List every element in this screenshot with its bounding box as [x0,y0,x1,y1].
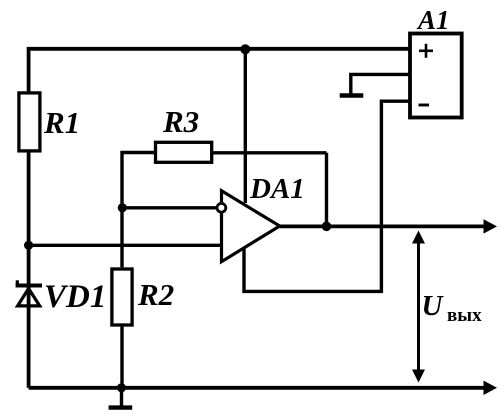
supply block A1 [410,34,462,118]
svg-text:DA1: DA1 [249,173,305,205]
wire R2 bottom lead [120,327,123,388]
resistor R1 [19,93,40,151]
wire R2 top lead [120,208,123,267]
svg-text:R3: R3 [162,104,199,139]
dimension arrow U out [412,231,425,383]
wire output [280,224,486,228]
wire inverting input [122,206,217,209]
plus terminal mark [419,44,433,58]
resistor R2 [112,269,132,325]
arrowhead bottom rail [484,381,498,395]
svg-text:вых: вых [447,305,482,326]
wire op-amp V- pin to A1 minus [244,101,410,291]
svg-text:R2: R2 [137,277,174,312]
wire feedback drop [325,153,328,226]
resistor R3 [156,142,212,162]
node zener junction [24,241,33,250]
svg-text:U: U [422,290,445,322]
node inverting input junction [118,203,127,212]
ground at A1 [340,93,364,97]
node V+ tap junction [240,44,250,54]
wire R3 left lead [122,153,154,208]
diode VD1 zener [16,280,42,306]
wire left rail [27,150,31,388]
node output junction [322,222,332,232]
wire A1 ground lead [351,74,410,93]
wire op-amp V+ pin [244,49,247,203]
minus terminal mark [419,104,430,107]
op-amp DA1 [222,191,280,262]
wire bottom rail [29,386,486,390]
svg-text:A1: A1 [416,5,450,35]
svg-text:VD1: VD1 [44,279,106,315]
wire top rail [29,49,410,92]
node ground junction [117,383,126,392]
inverting input bubble [217,203,226,212]
arrowhead output [484,219,498,233]
wire R3 right lead [213,151,327,154]
ground under R2 [109,388,133,408]
wire non-inverting input [29,244,220,247]
svg-text:R1: R1 [43,105,80,140]
